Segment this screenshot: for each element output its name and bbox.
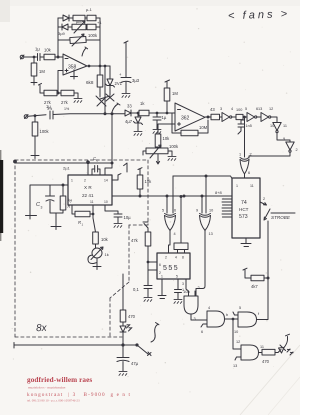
node minus1 xyxy=(57,56,59,58)
ground 555 pin1 xyxy=(158,279,166,299)
svg-text:10k: 10k xyxy=(145,179,153,184)
strobe label arrow xyxy=(264,209,295,220)
ground trim xyxy=(93,267,101,270)
svg-text:47µ: 47µ xyxy=(131,361,139,366)
svg-text:74: 74 xyxy=(241,200,247,206)
svg-text:13: 13 xyxy=(233,364,237,368)
resistor 100 xyxy=(236,108,247,120)
svg-text:100k: 100k xyxy=(169,144,179,149)
svg-text:3µ3: 3µ3 xyxy=(132,78,140,83)
supply flag xyxy=(124,163,127,172)
svg-text:100k: 100k xyxy=(40,129,50,134)
resistor 6k8 xyxy=(86,66,103,97)
wire xorB out to and1 xyxy=(196,231,205,297)
svg-text:8: 8 xyxy=(182,256,184,260)
potentiometer 100k row3 xyxy=(58,33,100,46)
svg-text:3: 3 xyxy=(220,107,222,111)
svg-text:R: R xyxy=(68,205,71,209)
wire reset hat xyxy=(174,196,188,254)
svg-text:100k: 100k xyxy=(88,33,98,38)
svg-text:573: 573 xyxy=(239,214,248,220)
svg-text:b: b xyxy=(226,313,228,317)
svg-text:10: 10 xyxy=(234,330,238,334)
ground zener xyxy=(134,131,142,135)
ground 573 xyxy=(241,238,251,247)
resistor 10k U2 xyxy=(155,134,170,148)
svg-text:1µ: 1µ xyxy=(46,104,51,109)
svg-text:1M: 1M xyxy=(39,69,45,74)
resistor 4k7 pullup xyxy=(243,268,268,289)
svg-text:2: 2 xyxy=(165,256,167,260)
ground 0,1 xyxy=(144,297,152,301)
svg-text:5: 5 xyxy=(239,306,241,310)
svg-text:C: C xyxy=(36,202,40,208)
resistor 27k b xyxy=(61,90,78,111)
svg-text:kongostraat | 3 B-9000 g e: kongostraat | 3 B-9000 g e n t xyxy=(27,392,131,398)
svg-text:2: 2 xyxy=(296,148,298,152)
svg-text:3: 3 xyxy=(194,317,196,321)
svg-text:4k7: 4k7 xyxy=(251,284,258,289)
inverter U3D down xyxy=(270,123,290,143)
trim box P2 xyxy=(58,20,102,36)
svg-text:10: 10 xyxy=(104,200,108,204)
capacitor 47u xyxy=(117,358,139,372)
svg-text:470: 470 xyxy=(128,314,136,319)
resistor 43 xyxy=(210,107,222,120)
svg-text:1: 1 xyxy=(182,288,184,292)
wire 8x output vertical xyxy=(122,274,124,310)
resistor 1M input bias xyxy=(31,56,45,85)
svg-text:3: 3 xyxy=(182,282,184,286)
resistor 470 xyxy=(259,349,279,364)
ground 3u3 xyxy=(122,93,130,97)
resistor 1M U2 top xyxy=(164,80,178,114)
op-amp U2 362 xyxy=(175,103,205,131)
trimmer 1k bottom xyxy=(88,247,109,266)
wire plus input U2 xyxy=(158,124,175,134)
svg-text:13: 13 xyxy=(209,232,213,236)
strobe output arrow xyxy=(260,197,267,205)
svg-text:11: 11 xyxy=(260,345,264,349)
svg-text:8x: 8x xyxy=(36,323,48,335)
input terminal J2 xyxy=(24,115,46,119)
capacitor 1u in1 xyxy=(35,47,44,61)
ground 27k b xyxy=(74,98,82,102)
zener 4V7 xyxy=(125,112,143,131)
svg-text:8+8: 8+8 xyxy=(215,190,223,195)
svg-text:1µ: 1µ xyxy=(35,47,40,52)
inverter U3B xyxy=(245,107,261,122)
svg-text:µ-1: µ-1 xyxy=(86,7,93,12)
node bus dot xyxy=(122,344,124,346)
wire pin top a xyxy=(63,161,89,175)
svg-text:9: 9 xyxy=(283,137,285,141)
dashed module box xyxy=(15,160,148,337)
wire xorA out to 555 xyxy=(169,231,171,254)
svg-text:10k: 10k xyxy=(163,136,171,141)
svg-text:1µ: 1µ xyxy=(162,115,167,120)
svg-text:10µ: 10µ xyxy=(124,215,132,220)
capacitor 3u3 with + feed xyxy=(119,41,140,93)
svg-text:3: 3 xyxy=(41,206,43,210)
svg-text:2: 2 xyxy=(250,153,252,157)
inverter U3E down xyxy=(249,137,298,158)
svg-text:43: 43 xyxy=(210,107,215,112)
fold lines bottom right xyxy=(240,345,300,415)
svg-text:14: 14 xyxy=(104,179,108,183)
resistor R top row1 xyxy=(73,15,87,21)
potentiometer 100k U2 xyxy=(143,144,179,158)
node plus1 xyxy=(57,92,59,94)
svg-text:2V1: 2V1 xyxy=(115,81,123,86)
capacitor Cc xyxy=(92,156,100,175)
svg-text:10k: 10k xyxy=(101,237,109,242)
svg-text:12: 12 xyxy=(236,340,240,344)
wire plus input U1 xyxy=(58,71,63,94)
trim box P1 xyxy=(86,7,100,21)
svg-text:2: 2 xyxy=(263,197,265,201)
svg-text:1: 1 xyxy=(236,184,238,188)
svg-text:1: 1 xyxy=(71,179,73,183)
ground scribble 6k8 xyxy=(96,96,110,106)
svg-text:2µ1: 2µ1 xyxy=(63,166,71,171)
wire 555 out pin3 xyxy=(186,279,189,296)
resistor 470 led2 xyxy=(120,310,135,326)
svg-text:4µ7: 4µ7 xyxy=(125,119,133,124)
ground cap node xyxy=(153,129,161,133)
resistor 10k timing xyxy=(92,205,109,248)
svg-text:< fans >: < fans > xyxy=(228,8,290,22)
led D6 down xyxy=(120,325,132,357)
svg-text:5: 5 xyxy=(245,107,247,111)
svg-text:6k8: 6k8 xyxy=(86,80,94,85)
wire latch enable top xyxy=(173,175,232,179)
ground arrow pot xyxy=(156,154,159,164)
resistor 10M feedback U2 xyxy=(172,113,208,136)
wire xorA inputs xyxy=(167,176,173,213)
power curl U1 xyxy=(82,47,88,56)
svg-text:5: 5 xyxy=(176,275,178,279)
svg-text:33: 33 xyxy=(127,104,132,109)
wire 555 left pins xyxy=(143,222,157,285)
wire common bus y345 xyxy=(14,343,138,349)
IC 555 xyxy=(157,253,190,286)
svg-text:1: 1 xyxy=(239,153,241,157)
diode D3 xyxy=(125,104,139,117)
svg-text:2: 2 xyxy=(84,179,86,183)
ground 47u xyxy=(119,371,127,375)
svg-text:godfried-willem raes: godfried-willem raes xyxy=(27,376,92,384)
svg-text:1n5: 1n5 xyxy=(246,124,252,128)
diode D2 xyxy=(58,24,72,30)
svg-text:1k: 1k xyxy=(105,252,109,257)
svg-text:HCT: HCT xyxy=(239,207,249,212)
ground pot right xyxy=(168,156,176,160)
svg-text:10k: 10k xyxy=(44,48,52,53)
svg-text:0,1: 0,1 xyxy=(133,287,139,292)
switch tap xyxy=(112,103,120,112)
svg-text:1%: 1% xyxy=(64,107,70,111)
svg-text:11: 11 xyxy=(250,184,254,188)
capacitor 1n5 xyxy=(238,117,252,134)
relay curl xyxy=(151,323,159,343)
svg-text:X R: X R xyxy=(84,185,92,190)
svg-text:555: 555 xyxy=(163,265,179,272)
wire xorB inputs xyxy=(202,176,206,213)
svg-text:10: 10 xyxy=(270,124,274,128)
resistor 10k out xyxy=(137,168,152,197)
xor gate U4B xyxy=(162,209,176,237)
svg-text:tel. 091/23 80 10 - p.c.r. 000: tel. 091/23 80 10 - p.c.r. 000-1058746-2… xyxy=(27,399,80,403)
potentiometer 1M row2 xyxy=(72,19,86,33)
inverter U3C xyxy=(258,107,277,122)
capacitor 1u in2 xyxy=(46,104,53,119)
svg-text:6: 6 xyxy=(174,209,176,213)
svg-text:9: 9 xyxy=(196,209,198,213)
wire U2 out xyxy=(205,116,211,118)
ground 10n xyxy=(174,299,182,303)
svg-text:11: 11 xyxy=(283,124,287,128)
svg-text:10: 10 xyxy=(209,209,213,213)
resistor R1 bottom xyxy=(72,205,93,227)
wire pin right top xyxy=(112,174,121,180)
resistor 1k xyxy=(139,101,175,116)
svg-text:2: 2 xyxy=(198,286,200,290)
resistor 27k a xyxy=(44,90,61,111)
svg-text:4: 4 xyxy=(231,107,233,111)
ground V- U1 xyxy=(71,70,78,79)
wire chip feed vertical xyxy=(105,113,112,175)
svg-text:47k: 47k xyxy=(131,238,139,243)
svg-text:+1: +1 xyxy=(97,20,102,25)
svg-text:STROBE: STROBE xyxy=(271,215,291,220)
node corner dot xyxy=(14,160,17,163)
svg-text:6: 6 xyxy=(248,171,250,175)
wire U1 output xyxy=(87,65,110,67)
ground 10u xyxy=(114,223,122,227)
svg-text:1µ: 1µ xyxy=(68,198,72,202)
svg-text:10M: 10M xyxy=(199,125,208,130)
ground in2 bias xyxy=(31,156,39,159)
capacitor 10n pin5 xyxy=(175,279,190,299)
wire main out y196 xyxy=(112,195,232,197)
resistor 10k in1 xyxy=(44,48,63,60)
and gate U5B right xyxy=(201,306,238,334)
svg-text:11: 11 xyxy=(90,200,94,204)
led D5 xyxy=(278,334,293,355)
wire signal bus y113 xyxy=(53,113,125,115)
diode D1 xyxy=(58,15,73,21)
wire feedback left vertical xyxy=(57,18,59,57)
switch contact xyxy=(137,345,151,356)
footer red letterhead xyxy=(27,376,131,403)
op-amp U1 358 xyxy=(63,54,87,75)
svg-text:12: 12 xyxy=(269,107,273,111)
capacitor 10u xyxy=(105,205,131,223)
wire XOR C left input xyxy=(244,118,246,157)
inverter U3A xyxy=(220,107,236,122)
xor gate U4A xyxy=(239,153,252,179)
wire pin1 ground loop xyxy=(26,185,69,219)
svg-text:muziekdoos - muziekmaker: muziekdoos - muziekmaker xyxy=(28,386,67,390)
svg-text:1M: 1M xyxy=(172,91,178,96)
svg-text:3µ9: 3µ9 xyxy=(58,31,66,36)
data input stubs 8x xyxy=(215,190,232,217)
svg-text:470: 470 xyxy=(262,359,270,364)
resistor 47k xyxy=(131,232,151,246)
svg-text:4: 4 xyxy=(175,256,177,260)
svg-text:1: 1 xyxy=(161,275,163,279)
IC XR2241 xyxy=(68,175,112,205)
svg-text:6: 6 xyxy=(159,263,161,267)
IC 74HCT573 xyxy=(232,178,260,238)
svg-text:6: 6 xyxy=(201,330,203,334)
scan edge black bar xyxy=(0,160,3,233)
svg-text:27k: 27k xyxy=(61,100,69,105)
xor gate U4C xyxy=(196,209,213,237)
and gate U5D right xyxy=(233,319,264,368)
svg-text:13: 13 xyxy=(258,107,262,111)
svg-text:362: 362 xyxy=(181,116,190,122)
wire mix down xyxy=(104,66,106,114)
svg-text:4: 4 xyxy=(208,306,210,310)
resistor 100k in2 bias xyxy=(32,115,49,155)
hook 27k left xyxy=(39,83,45,93)
svg-text:22 41: 22 41 xyxy=(82,193,94,198)
and gate U5C right xyxy=(233,221,269,334)
svg-text:µM: µM xyxy=(76,19,82,24)
svg-text:4: 4 xyxy=(174,232,176,236)
wire bus y163 xyxy=(15,162,113,164)
capacitor C1 cluster xyxy=(46,184,72,230)
capacitor 0,1 xyxy=(133,286,152,298)
svg-text:358: 358 xyxy=(68,65,77,71)
wire feedback right vertical xyxy=(99,18,101,66)
zener 2V1 xyxy=(106,66,123,101)
svg-text:5: 5 xyxy=(162,209,164,213)
svg-text:100: 100 xyxy=(236,108,242,112)
input terminal J1 xyxy=(20,55,36,59)
capacitor 1u node xyxy=(153,112,167,129)
and gate U5A down xyxy=(182,286,207,321)
